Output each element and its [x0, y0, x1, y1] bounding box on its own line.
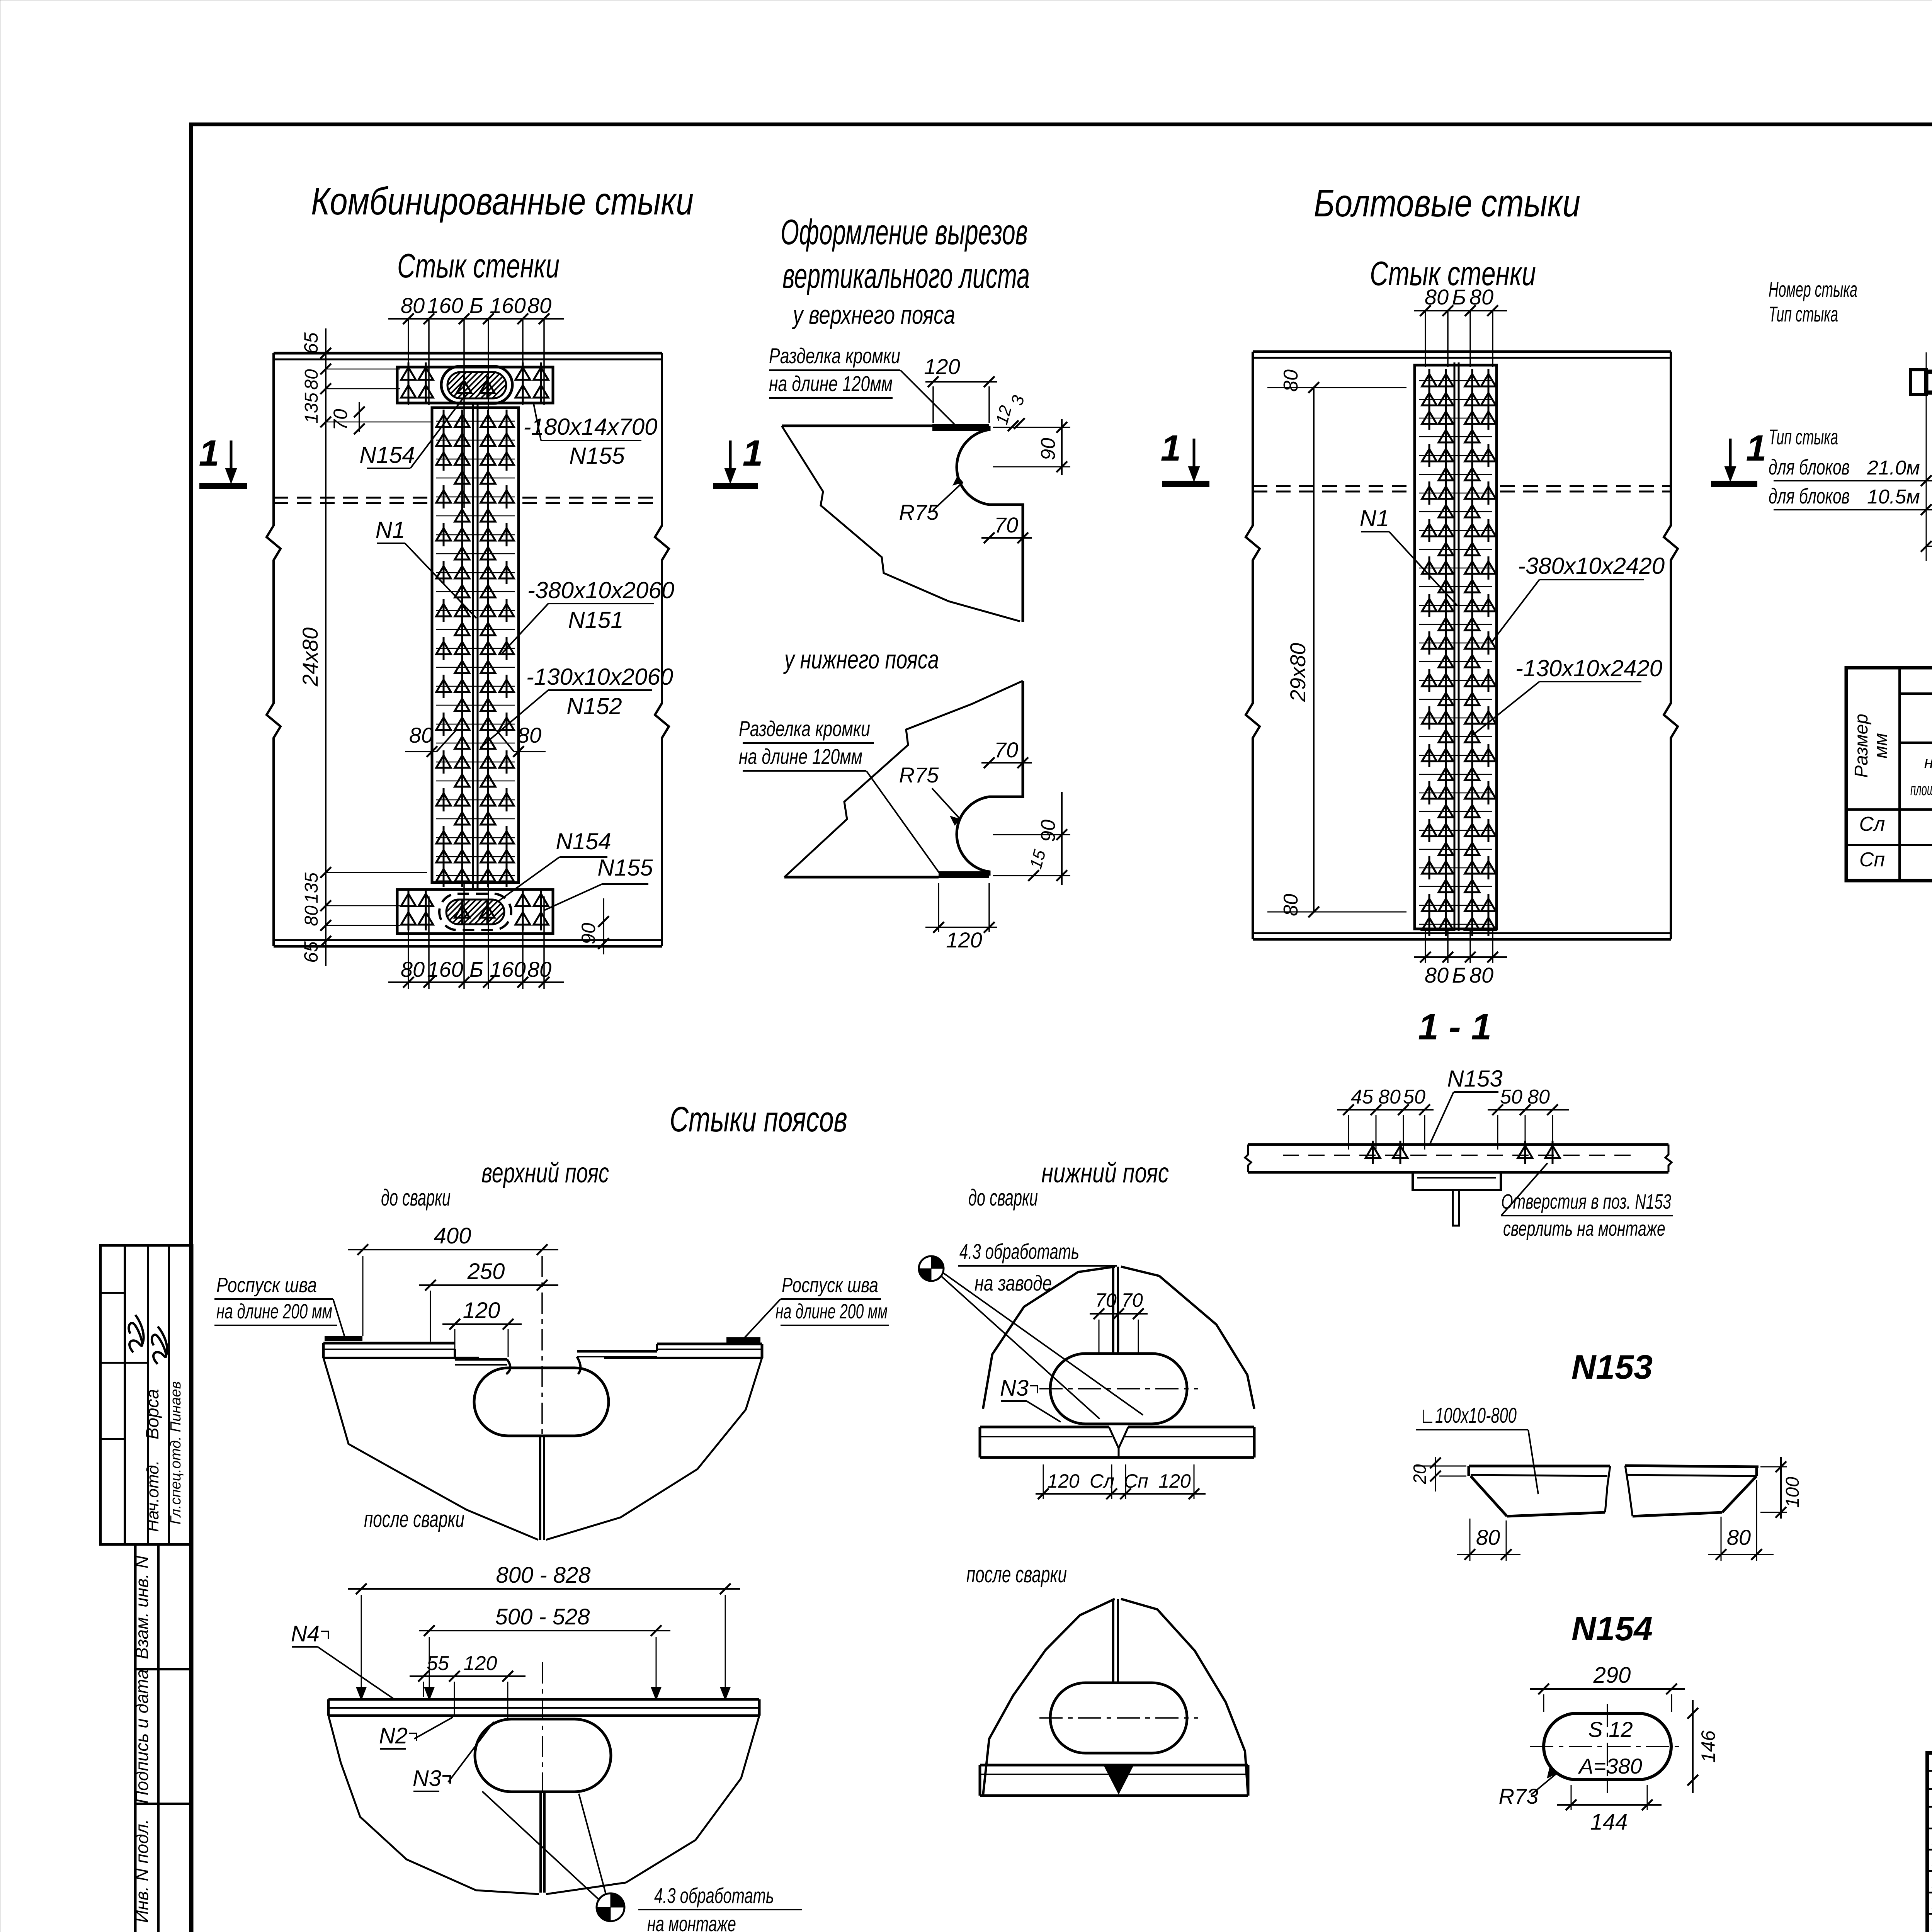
svg-text:Взам. инв. N: Взам. инв. N [132, 1555, 152, 1659]
svg-text:70: 70 [1121, 1289, 1143, 1311]
svg-text:24x80: 24x80 [298, 628, 322, 687]
svg-text:120: 120 [924, 354, 960, 379]
svg-text:120: 120 [464, 1652, 497, 1675]
svg-text:80: 80 [409, 723, 433, 747]
svg-text:Гл.спец.отд. Пинаев: Гл.спец.отд. Пинаев [168, 1381, 184, 1524]
svg-text:1: 1 [1746, 428, 1767, 469]
svg-text:80: 80 [1727, 1525, 1751, 1549]
svg-text:Комбинированные стыки: Комбинированные стыки [311, 180, 694, 223]
svg-text:N154: N154 [556, 828, 611, 854]
svg-text:80: 80 [301, 369, 322, 390]
svg-text:20: 20 [1410, 1464, 1430, 1485]
svg-text:-180x14x700: -180x14x700 [524, 414, 658, 440]
svg-text:N2: N2 [379, 1723, 408, 1748]
svg-text:до сварки: до сварки [968, 1185, 1038, 1211]
svg-text:Роспуск шва: Роспуск шва [216, 1274, 317, 1297]
svg-text:80: 80 [527, 293, 551, 318]
svg-text:Оформление вырезов: Оформление вырезов [781, 213, 1028, 252]
svg-text:на длине 200 мм: на длине 200 мм [216, 1300, 332, 1323]
svg-text:S 12: S 12 [1588, 1717, 1633, 1742]
svg-text:A=380: A=380 [1578, 1754, 1642, 1778]
svg-text:4.3 обработать: 4.3 обработать [654, 1883, 774, 1908]
svg-text:80: 80 [1378, 1086, 1401, 1108]
svg-text:N154: N154 [1571, 1609, 1653, 1648]
svg-text:70: 70 [994, 513, 1018, 537]
svg-text:90: 90 [578, 923, 599, 944]
svg-text:80: 80 [1527, 1086, 1550, 1108]
svg-text:80: 80 [1280, 894, 1302, 916]
svg-text:N1: N1 [1360, 505, 1389, 531]
svg-text:90: 90 [1037, 438, 1060, 460]
svg-text:500 - 528: 500 - 528 [495, 1604, 590, 1629]
svg-text:120: 120 [463, 1298, 500, 1323]
svg-text:135: 135 [301, 872, 322, 903]
svg-text:120: 120 [946, 928, 982, 952]
svg-text:∟100x10-800: ∟100x10-800 [1420, 1403, 1517, 1427]
svg-text:-380x10x2420: -380x10x2420 [1518, 553, 1665, 579]
svg-text:Отверстия в поз. N153: Отверстия в поз. N153 [1501, 1190, 1671, 1213]
svg-text:N3: N3 [1000, 1376, 1029, 1401]
svg-text:на монтаже: на монтаже [647, 1912, 736, 1932]
svg-text:N152: N152 [566, 693, 622, 719]
svg-text:на заводе: на заводе [975, 1271, 1052, 1295]
svg-text:100: 100 [1782, 1477, 1803, 1508]
svg-text:Сл: Сл [1859, 813, 1885, 835]
svg-text:Б: Б [469, 293, 483, 318]
svg-text:Разделка кромки: Разделка кромки [739, 716, 870, 741]
svg-text:80: 80 [517, 723, 541, 747]
svg-text:29x80: 29x80 [1286, 643, 1310, 702]
svg-text:N155: N155 [569, 443, 625, 469]
svg-text:N4: N4 [291, 1621, 320, 1646]
svg-text:Инв. N подл.: Инв. N подл. [132, 1819, 152, 1923]
svg-text:144: 144 [1590, 1810, 1628, 1835]
svg-text:Номер стыка: Номер стыка [1769, 277, 1857, 301]
svg-text:мм: мм [1871, 733, 1891, 759]
svg-text:80: 80 [527, 957, 551, 981]
svg-text:160: 160 [490, 957, 526, 981]
svg-text:сверлить на монтаже: сверлить на монтаже [1503, 1217, 1665, 1240]
svg-text:160: 160 [490, 293, 526, 318]
svg-text:80: 80 [401, 957, 425, 981]
svg-text:80: 80 [1425, 285, 1449, 309]
svg-text:400: 400 [434, 1223, 471, 1248]
svg-text:146: 146 [1697, 1730, 1719, 1763]
svg-text:800 - 828: 800 - 828 [496, 1563, 590, 1588]
svg-text:Разделка кромки: Разделка кромки [769, 344, 900, 368]
svg-text:R73: R73 [1499, 1784, 1539, 1808]
svg-text:N153: N153 [1571, 1348, 1653, 1386]
svg-text:1 - 1: 1 - 1 [1418, 1007, 1492, 1048]
svg-text:80: 80 [1469, 285, 1493, 309]
svg-text:50: 50 [1500, 1086, 1522, 1108]
svg-text:70: 70 [1095, 1289, 1117, 1311]
svg-text:Б: Б [469, 957, 483, 981]
svg-text:120: 120 [1047, 1470, 1080, 1492]
svg-text:нижний пояс: нижний пояс [1041, 1158, 1169, 1189]
svg-text:после сварки: после сварки [966, 1561, 1067, 1587]
svg-text:Размер: Размер [1851, 714, 1872, 778]
svg-text:21.0м: 21.0м [1867, 457, 1920, 479]
svg-text:Роспуск шва: Роспуск шва [782, 1274, 878, 1297]
svg-text:N1: N1 [376, 517, 405, 543]
svg-text:10.5м: 10.5м [1867, 486, 1920, 508]
svg-text:Нач.отд.: Нач.отд. [143, 1460, 162, 1532]
svg-text:80: 80 [1280, 369, 1302, 392]
svg-text:у нижнего пояса: у нижнего пояса [783, 645, 939, 674]
svg-text:Болтовые стыки: Болтовые стыки [1314, 182, 1580, 225]
svg-text:N3: N3 [413, 1766, 441, 1791]
svg-text:вертикального листа: вертикального листа [782, 256, 1030, 296]
svg-text:55: 55 [427, 1652, 449, 1675]
svg-text:80: 80 [1469, 963, 1493, 987]
svg-text:после сварки: после сварки [364, 1506, 464, 1532]
svg-text:160: 160 [427, 957, 463, 981]
svg-text:Сп: Сп [1124, 1470, 1148, 1492]
svg-text:-130x10x2420: -130x10x2420 [1515, 655, 1662, 681]
svg-text:для блоков: для блоков [1769, 484, 1850, 508]
svg-text:площадке: площадке [1910, 780, 1932, 799]
svg-text:N151: N151 [568, 607, 623, 633]
svg-text:250: 250 [467, 1259, 505, 1284]
svg-text:70: 70 [330, 409, 351, 430]
svg-text:290: 290 [1593, 1663, 1631, 1688]
svg-text:до сварки: до сварки [381, 1185, 451, 1211]
svg-text:Тип стыка: Тип стыка [1769, 425, 1838, 449]
svg-text:80: 80 [301, 905, 322, 926]
svg-text:N155: N155 [597, 855, 653, 881]
svg-text:Стык стенки: Стык стенки [397, 247, 560, 285]
svg-text:Ворса: Ворса [142, 1389, 162, 1439]
svg-text:Стыки поясов: Стыки поясов [670, 1100, 847, 1139]
svg-text:N153: N153 [1447, 1066, 1502, 1092]
svg-text:на длине 120мм: на длине 120мм [739, 744, 862, 769]
svg-text:80: 80 [1476, 1525, 1500, 1549]
svg-text:R75: R75 [899, 500, 939, 524]
svg-text:для блоков: для блоков [1769, 455, 1850, 479]
svg-text:90: 90 [1037, 820, 1060, 842]
svg-text:120: 120 [1158, 1470, 1191, 1492]
svg-text:80: 80 [1425, 963, 1449, 987]
svg-text:160: 160 [427, 293, 463, 318]
svg-text:1: 1 [1161, 428, 1181, 469]
svg-text:70: 70 [994, 738, 1018, 762]
svg-text:50: 50 [1403, 1086, 1425, 1108]
svg-text:на: на [1924, 753, 1932, 772]
svg-text:R75: R75 [899, 763, 939, 787]
svg-text:80: 80 [401, 293, 425, 318]
svg-text:1: 1 [199, 433, 219, 474]
svg-text:-380x10x2060: -380x10x2060 [527, 577, 674, 603]
svg-text:Тип стыка: Тип стыка [1769, 302, 1838, 326]
svg-text:на длине 120мм: на длине 120мм [769, 371, 893, 396]
svg-text:45: 45 [1351, 1086, 1374, 1108]
svg-text:на длине 200 мм: на длине 200 мм [776, 1300, 888, 1323]
svg-text:Сп: Сп [1859, 849, 1885, 871]
svg-text:N154: N154 [359, 442, 415, 468]
svg-text:65: 65 [300, 941, 322, 963]
svg-text:верхний пояс: верхний пояс [481, 1158, 609, 1189]
svg-text:1: 1 [743, 433, 763, 474]
svg-text:Б: Б [1452, 963, 1466, 987]
svg-text:4.3 обработать: 4.3 обработать [959, 1239, 1079, 1264]
svg-text:-130x10x2060: -130x10x2060 [526, 664, 673, 690]
svg-text:135: 135 [301, 393, 322, 423]
svg-text:65: 65 [300, 332, 322, 354]
svg-text:Сл: Сл [1090, 1470, 1114, 1492]
svg-text:Подпись и дата: Подпись и дата [132, 1669, 152, 1804]
svg-text:у верхнего пояса: у верхнего пояса [792, 300, 955, 330]
svg-text:Б: Б [1452, 285, 1466, 309]
